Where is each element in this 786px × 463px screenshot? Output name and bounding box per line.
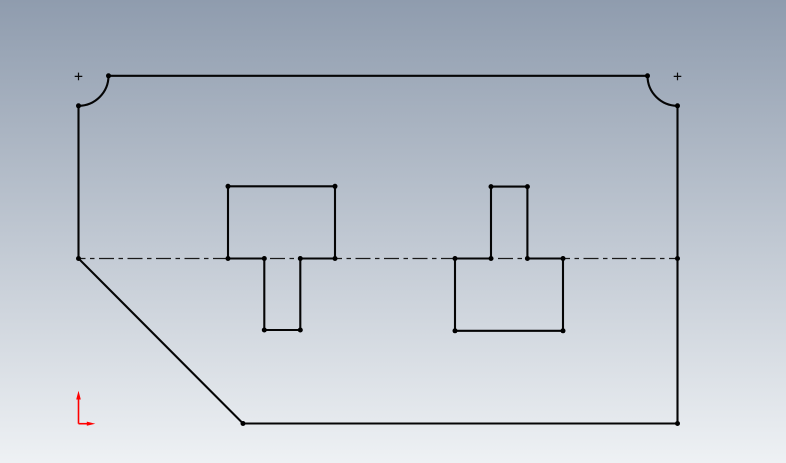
right inverted-T feature	[455, 187, 563, 331]
plus mark left arc centre	[75, 73, 83, 81]
main outline with corner coves	[79, 76, 678, 424]
left T-feature	[228, 186, 335, 330]
plus mark right arc centre	[674, 73, 682, 81]
origin symbol (red axes)	[76, 391, 95, 426]
vertex dots	[76, 73, 680, 426]
centerline (dash-dot construction line)	[79, 258, 678, 260]
